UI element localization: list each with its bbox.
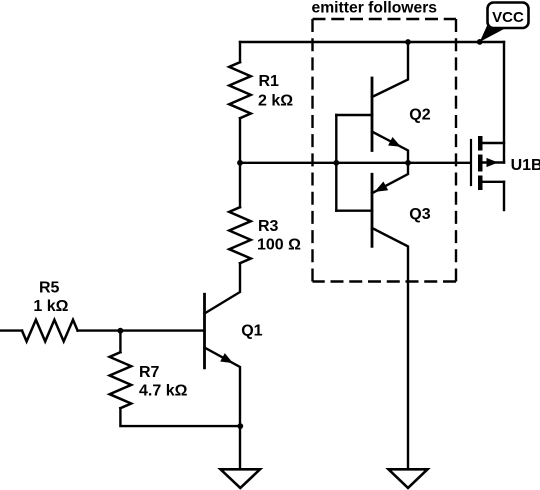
svg-text:2 kΩ: 2 kΩ <box>258 92 293 109</box>
svg-text:R5: R5 <box>39 279 60 296</box>
svg-text:R7: R7 <box>139 364 160 381</box>
svg-text:Q2: Q2 <box>409 107 430 124</box>
svg-text:VCC: VCC <box>492 9 524 26</box>
svg-text:1 kΩ: 1 kΩ <box>33 298 68 315</box>
svg-text:Q3: Q3 <box>409 206 430 223</box>
svg-text:4.7 kΩ: 4.7 kΩ <box>139 383 188 400</box>
svg-text:R1: R1 <box>259 73 280 90</box>
svg-text:R3: R3 <box>258 218 279 235</box>
svg-text:emitter followers: emitter followers <box>312 0 438 17</box>
svg-text:U1B: U1B <box>511 157 540 174</box>
svg-text:Q1: Q1 <box>241 323 262 340</box>
svg-text:100 Ω: 100 Ω <box>257 237 301 254</box>
